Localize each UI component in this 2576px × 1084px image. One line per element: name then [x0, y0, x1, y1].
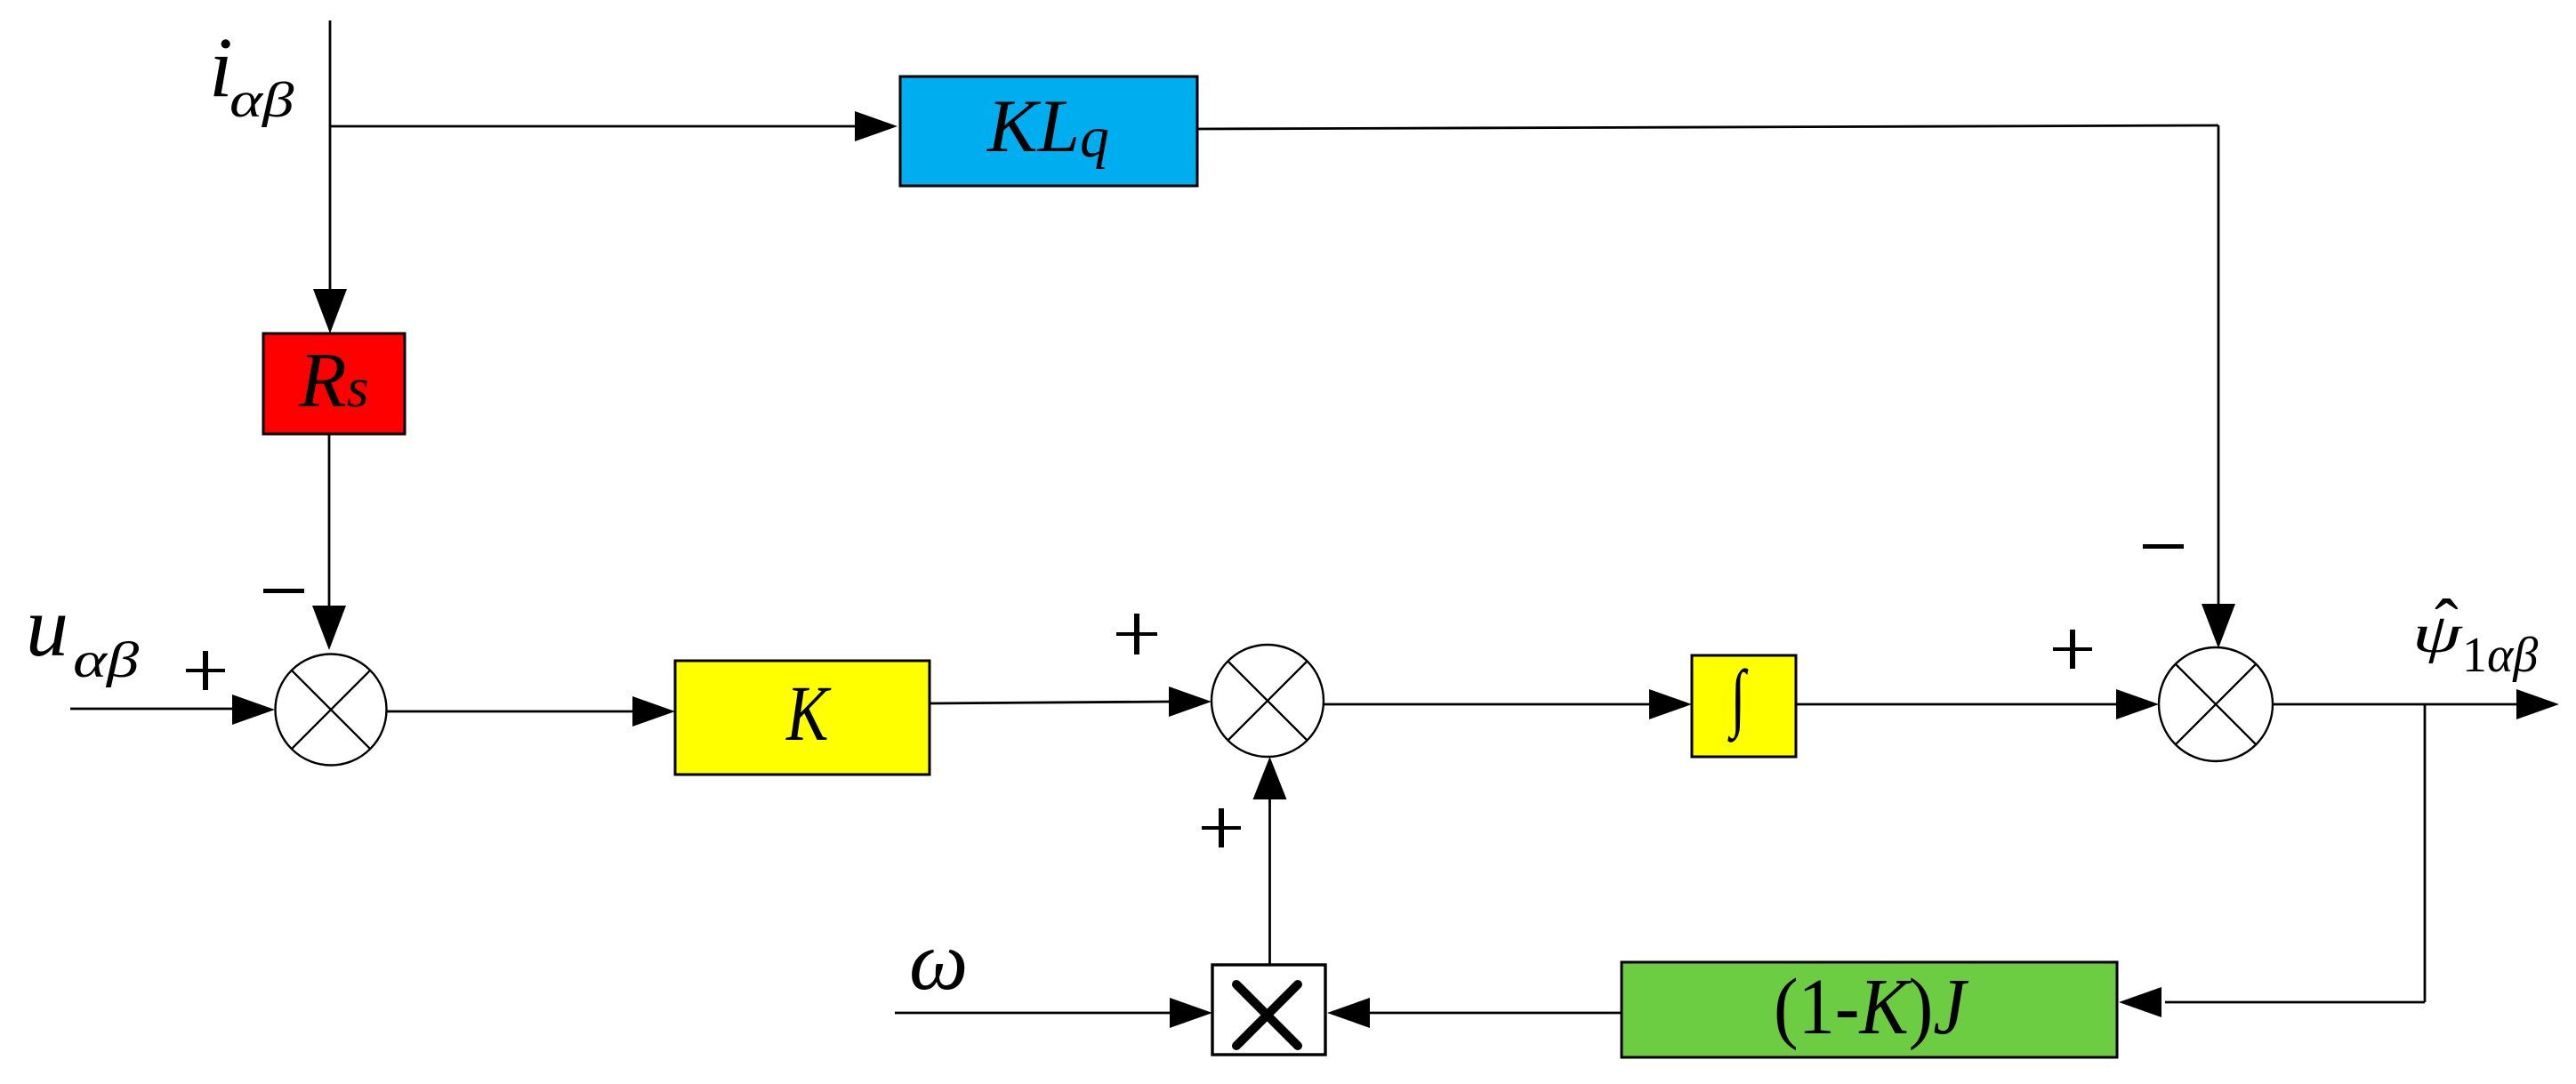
wire multiplier up to sum2 [1253, 757, 1287, 965]
label minus at sum3 [2143, 544, 2184, 549]
wire uab into sum1 [70, 695, 275, 725]
block (1-K)J [1622, 962, 2117, 1057]
summing junction sum1 [276, 654, 387, 766]
wire K to sum2 [930, 687, 1212, 717]
wire sum1 to K [387, 696, 676, 727]
wire KLq to right corner [1197, 125, 2218, 129]
label minus at sum1 [263, 589, 304, 593]
svg-text:ω: ω [909, 915, 968, 1008]
block integrator [1692, 655, 1796, 757]
block multiplier [1212, 965, 1325, 1055]
svg-text:u: u [26, 579, 68, 674]
wire branch to green block [2119, 987, 2425, 1017]
wire sum3 to output [2273, 689, 2559, 719]
wire integrator to sum3 [1796, 689, 2159, 719]
block KLq [900, 76, 1197, 186]
summing junction sum3 [2159, 647, 2273, 761]
wire Rs to sum1 [312, 434, 346, 650]
wire iab to KLq [330, 111, 898, 141]
wire corner down to sum3 [2202, 125, 2235, 648]
svg-text:1αβ: 1αβ [2462, 628, 2538, 683]
label plus below sum2 [1202, 808, 1241, 847]
wire output branch down [2424, 704, 2427, 1002]
wire omega to multiplier [895, 998, 1212, 1028]
label psi hat output [2412, 586, 2538, 683]
wire sum2 to integrator [1324, 689, 1692, 719]
svg-text:K: K [785, 670, 832, 758]
block K [675, 661, 930, 775]
svg-text:(1-K)J: (1-K)J [1774, 962, 1969, 1051]
label plus at sum1 [186, 651, 225, 690]
svg-text:αβ: αβ [73, 632, 140, 688]
label plus left of sum3 [2053, 630, 2092, 669]
svg-text:ˆ: ˆ [2435, 586, 2459, 664]
wire iab vertical drop [313, 20, 347, 333]
block Rs [263, 333, 405, 434]
summing junction sum2 [1212, 645, 1324, 757]
wire green block to multiplier [1327, 998, 1622, 1028]
svg-text:αβ: αβ [229, 72, 294, 127]
label plus above sum2 [1116, 614, 1157, 654]
